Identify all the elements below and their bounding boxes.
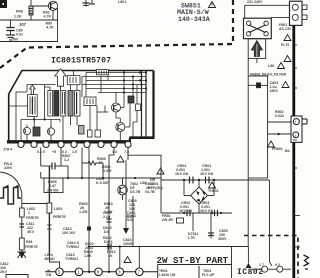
svg-text:04.7B: 04.7B <box>145 190 155 194</box>
svg-text:J07: J07 <box>19 22 27 27</box>
terminal circles IC802 <box>262 266 268 272</box>
terminal 8 <box>95 268 103 276</box>
degauss box <box>248 76 267 178</box>
svg-text:L803: L803 <box>54 207 62 211</box>
svg-text:1.2W: 1.2W <box>79 210 88 214</box>
wire down x21.8 <box>21 193 23 208</box>
svg-text:L80: L80 <box>268 64 274 68</box>
wire y212 <box>161 212 232 214</box>
svg-text:50V: 50V <box>12 38 19 42</box>
junction dots column B <box>132 75 134 77</box>
block cluster 3 <box>61 91 66 117</box>
svg-text:D4: D4 <box>104 230 109 234</box>
capacitor CR04 <box>189 177 191 184</box>
pin 2 <box>31 141 37 147</box>
ST-BY part box <box>158 265 232 278</box>
wires vertical right <box>123 73 125 99</box>
connector P802 <box>291 116 307 142</box>
fuse box F801 <box>248 39 266 59</box>
resistor R805 boxed label <box>44 178 63 193</box>
rotated W label right edge <box>304 255 309 269</box>
warning triangle mid <box>124 257 131 263</box>
svg-text:1 2: 1 2 <box>112 150 117 154</box>
capacitor C807 <box>10 20 12 28</box>
wire <box>0 19 58 21</box>
svg-text:231 240V: 231 240V <box>247 0 263 4</box>
wire <box>0 41 58 43</box>
svg-text:TVR06J: TVR06J <box>66 245 79 249</box>
wire to connector 7 <box>268 121 291 123</box>
wire pin9 down <box>127 148 129 161</box>
warning triangle NR <box>157 168 164 174</box>
svg-text:9 2: 9 2 <box>275 263 280 267</box>
fuse arrow <box>251 41 262 57</box>
capacitor C806 <box>186 210 188 216</box>
svg-text:1000P: 1000P <box>123 242 134 246</box>
IC801 body outline <box>7 71 155 142</box>
svg-text:FR801: FR801 <box>272 147 283 151</box>
line filter box <box>244 18 272 39</box>
warning triangle D804 <box>117 156 124 162</box>
svg-text:L80: L80 <box>140 181 146 185</box>
svg-text:FERITE: FERITE <box>26 216 39 220</box>
wire row <box>41 177 161 179</box>
wire pin8 down <box>108 155 110 272</box>
connector pad top-left <box>0 0 7 8</box>
component top edge stub <box>85 0 87 6</box>
svg-text:FLY-UP: FLY-UP <box>202 273 215 277</box>
resistor R821 box <box>177 218 184 223</box>
terminal 7 <box>136 268 144 276</box>
small rect bottom a <box>79 126 85 135</box>
svg-text:R81: R81 <box>26 240 33 244</box>
svg-text:FERITE: FERITE <box>25 245 38 249</box>
warning triangle FR801 <box>268 141 275 147</box>
wire pin6 down <box>88 148 90 272</box>
right AC section <box>244 1 308 266</box>
wire arc from edge <box>0 172 22 193</box>
svg-text:1KV GK: 1KV GK <box>175 172 189 176</box>
capacitor CR01 <box>205 177 207 184</box>
svg-text:1K: 1K <box>108 254 113 258</box>
transistor Q-L2 <box>47 128 54 135</box>
svg-text:4.7K: 4.7K <box>46 26 54 30</box>
dark block <box>33 127 40 136</box>
svg-text:GN: GN <box>46 273 52 277</box>
svg-text:K-0.087: K-0.087 <box>96 181 109 185</box>
svg-text:2W RA: 2W RA <box>47 189 59 193</box>
wire top rail left <box>27 84 56 86</box>
capacitor C804 <box>214 210 216 216</box>
bus rails right <box>86 72 146 74</box>
svg-text:L801: L801 <box>118 0 126 4</box>
svg-text:220V: 220V <box>4 166 13 170</box>
svg-text:1KV GK: 1KV GK <box>200 209 214 213</box>
connector P801 <box>290 1 303 25</box>
junction square <box>87 227 91 231</box>
IC pins <box>18 141 131 147</box>
wire to connector 1 <box>268 133 291 135</box>
pin 6 <box>84 141 90 147</box>
svg-text:TVR06J: TVR06J <box>65 257 78 261</box>
junction dots rail <box>67 177 136 273</box>
capacitor C808 <box>41 165 52 167</box>
ground <box>7 34 15 36</box>
block cluster 1 <box>48 91 53 117</box>
svg-text:1: 1 <box>28 211 30 215</box>
inductor L803 <box>47 203 52 213</box>
svg-text:100 16V: 100 16V <box>62 231 76 235</box>
small rect bottom c <box>95 130 101 137</box>
svg-text:1.0: 1.0 <box>72 150 77 154</box>
terminal 5 <box>56 268 64 276</box>
svg-text:0.47: 0.47 <box>49 184 56 188</box>
IC801 internals <box>10 69 148 142</box>
warning triangle <box>209 2 216 8</box>
internal wires <box>10 105 28 107</box>
wire row y247 <box>89 246 248 248</box>
capacitor C811 <box>20 223 25 225</box>
svg-text:B4: B4 <box>285 149 290 153</box>
middle lower section <box>87 148 248 272</box>
svg-text:140-343A: 140-343A <box>178 16 210 23</box>
svg-text:0-0V: 0-0V <box>127 215 135 219</box>
transistor Q802 <box>48 1 57 10</box>
svg-text:1.2K: 1.2K <box>14 15 22 19</box>
ground hot <box>18 250 27 258</box>
terminal 1 <box>75 268 83 276</box>
svg-text:1 7: 1 7 <box>259 263 264 267</box>
pin 3 <box>43 141 49 147</box>
warning triangle TH801 <box>209 182 216 188</box>
svg-text:AC-CN: AC-CN <box>279 27 291 31</box>
svg-text:FL70: FL70 <box>281 43 289 47</box>
wire bead to pin5 bottom <box>49 255 59 269</box>
warning triangles right edge <box>284 35 291 62</box>
svg-text:L7R: L7R <box>188 236 195 240</box>
svg-text:BEAD: BEAD <box>45 257 56 261</box>
wire cross low <box>22 203 50 205</box>
bridge rectifier D801 <box>191 187 208 204</box>
svg-text:400V: 400V <box>218 237 227 241</box>
pin 7 <box>98 141 104 147</box>
warning triangle C803 <box>282 82 289 88</box>
warning triangle L800 <box>278 63 285 69</box>
svg-text:2W 3R: 2W 3R <box>162 218 173 222</box>
svg-text:D4?1: D4?1 <box>104 240 113 244</box>
junction dots column A <box>123 71 125 73</box>
svg-text:+5: +5 <box>52 150 56 154</box>
svg-text:1KV GK: 1KV GK <box>200 172 214 176</box>
wire pin2 down <box>40 148 42 167</box>
transistor Q801 <box>118 185 128 195</box>
svg-text:IC801STR5707: IC801STR5707 <box>51 57 111 66</box>
transistor Q-L1 <box>23 127 30 134</box>
terminal 3 <box>116 268 124 276</box>
block comparator <box>84 97 96 106</box>
transistor Q-D2 <box>116 123 125 132</box>
op-amp OSC house arrow <box>55 69 66 86</box>
svg-text:0.4W: 0.4W <box>103 169 112 173</box>
block cluster 5 <box>75 91 81 117</box>
diode D804 <box>246 247 292 273</box>
bottom connector row <box>45 268 158 276</box>
small arrow on error amp <box>30 85 36 95</box>
posistor B box <box>248 84 256 86</box>
test point arrow <box>125 160 127 228</box>
thick border right <box>292 25 295 116</box>
wire AC top <box>245 4 291 6</box>
svg-text:FERITE: FERITE <box>53 215 66 219</box>
block cluster 4 <box>68 91 73 117</box>
pin 8 <box>111 141 117 147</box>
wire from IC corner <box>128 150 161 213</box>
capacitor C805 <box>210 232 212 239</box>
svg-text:0.022: 0.022 <box>275 114 284 118</box>
svg-text:L4020 UH: L4020 UH <box>159 273 176 277</box>
wire degauss down <box>247 178 249 247</box>
small rect bottom b <box>88 130 93 137</box>
svg-text:TH801: TH801 <box>208 189 219 193</box>
wire x49 bead <box>48 166 50 255</box>
dashed stby boundary <box>244 236 298 278</box>
wires below IC <box>41 148 161 179</box>
wire fuse to degauss <box>256 58 258 63</box>
inductor L802 <box>20 208 25 217</box>
svg-text:1KV GK: 1KV GK <box>179 209 193 213</box>
pin 4 <box>58 141 64 147</box>
svg-text:1.8K: 1.8K <box>84 254 92 258</box>
capacitor C817 <box>107 218 112 220</box>
resistor R816 <box>19 238 24 250</box>
resistor FR8 <box>29 6 33 15</box>
svg-text:REF(GL): REF(GL) <box>148 186 163 190</box>
svg-text:2.2u: 2.2u <box>103 215 110 219</box>
resistor R806 zigzag <box>82 161 103 165</box>
block latch <box>67 76 80 85</box>
svg-text:2W ST-BY PART: 2W ST-BY PART <box>157 255 229 266</box>
svg-text:4.7K: 4.7K <box>44 15 52 19</box>
svg-text:FR8: FR8 <box>16 10 23 14</box>
pin 5 <box>71 141 77 147</box>
wire <box>57 8 58 10</box>
svg-text:1-2: 1-2 <box>64 158 69 162</box>
wire base <box>31 5 48 7</box>
svg-text:D4.7B: D4.7B <box>130 190 141 194</box>
left lower section <box>0 166 60 269</box>
block error amp <box>28 95 38 117</box>
capacitor C820 <box>91 0 93 4</box>
svg-text:4KV: 4KV <box>27 230 35 234</box>
border stubs <box>293 45 300 247</box>
transistor Q-D1 <box>112 103 121 112</box>
dashed section boundary <box>0 0 233 68</box>
svg-text:250V: 250V <box>270 89 279 93</box>
capacitor C816 <box>107 244 109 250</box>
wire pin5 down <box>81 148 83 164</box>
wire stby right edge <box>231 247 233 278</box>
svg-text:FB801 DEG/L.FILTER: FB801 DEG/L.FILTER <box>250 73 286 77</box>
svg-text:2KV: 2KV <box>0 270 8 274</box>
main AC wire <box>161 179 270 181</box>
pin 1 <box>18 141 24 147</box>
junction dots <box>198 179 200 181</box>
svg-text:J78-4: J78-4 <box>3 148 12 152</box>
block cluster 2 <box>54 91 59 117</box>
svg-text:0.01: 0.01 <box>16 33 23 37</box>
bridge area <box>128 150 270 213</box>
pin 9 <box>125 141 131 147</box>
wire down from y178 <box>270 180 273 266</box>
block reg <box>97 70 109 75</box>
waveform symbol 1 <box>0 188 21 205</box>
wire <box>30 0 32 20</box>
